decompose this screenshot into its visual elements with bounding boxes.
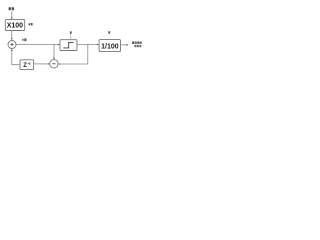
- node OUT label line 2: [134, 45, 141, 47]
- wire delay Z-1 to adder A2: [34, 63, 48, 65]
- wire adder A1 to quantizer: [16, 44, 58, 46]
- quantizer box Q: [60, 40, 77, 51]
- wire quantizer to scaler 1/100: [77, 44, 97, 46]
- node IN label: [9, 7, 14, 10]
- arrowhead into X100: [11, 18, 13, 20]
- wire scaler to output: [121, 44, 128, 46]
- tap junction, wire down from output wire: [87, 45, 89, 65]
- arrowhead into adder A1: [11, 38, 13, 40]
- adder A2 (minus): [50, 60, 58, 68]
- adder A1 (plus): [8, 41, 16, 49]
- svg-text:Z: Z: [23, 63, 27, 69]
- delay block Z-1: [20, 60, 34, 70]
- arrowhead into adder A2 right: [58, 63, 60, 65]
- node OUT label line 1: [132, 42, 142, 44]
- arrowhead into quantizer: [58, 44, 60, 46]
- block X100: [5, 20, 24, 31]
- block 1/100: [99, 40, 120, 52]
- quantizer annotation label + leader: [70, 31, 72, 39]
- wire delay Z-1 to adder A1 (left, up): [12, 50, 20, 65]
- annotation label above 1/100: [108, 31, 110, 33]
- arrowhead into adder A2 left edge: [48, 63, 50, 65]
- wire input to X100: [11, 11, 13, 18]
- svg-text:X100: X100: [7, 23, 23, 30]
- arrowhead output: [127, 44, 129, 46]
- arrowhead into adder A2 top: [53, 58, 55, 60]
- label right of X100: [29, 23, 33, 26]
- junction node, wire down to adder A2: [53, 45, 55, 59]
- svg-text:1/100: 1/100: [101, 43, 119, 50]
- label near adder A1: [22, 38, 26, 41]
- feedback wire to adder A2 right: [60, 63, 88, 65]
- wire X100 to adder A1: [11, 31, 13, 39]
- arrowhead into scaler 1/100: [97, 44, 99, 46]
- arrowhead into adder A1 bottom: [11, 49, 13, 51]
